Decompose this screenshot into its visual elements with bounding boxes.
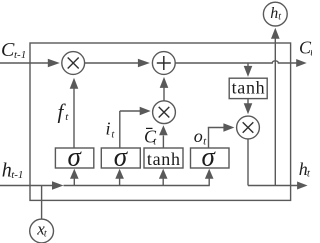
svg-text:o: o — [194, 126, 203, 146]
svg-text:t: t — [44, 229, 47, 240]
svg-text:h: h — [270, 5, 278, 22]
svg-text:t: t — [278, 12, 281, 23]
svg-text:σ: σ — [68, 142, 83, 172]
svg-text:t: t — [310, 46, 312, 58]
svg-text:C: C — [1, 39, 15, 61]
svg-text:t-1: t-1 — [14, 49, 26, 61]
svg-text:tanh: tanh — [232, 78, 266, 98]
svg-text:t-1: t-1 — [11, 169, 23, 181]
svg-text:tanh: tanh — [147, 149, 181, 169]
svg-text:i: i — [106, 119, 111, 139]
svg-text:σ: σ — [114, 142, 129, 172]
